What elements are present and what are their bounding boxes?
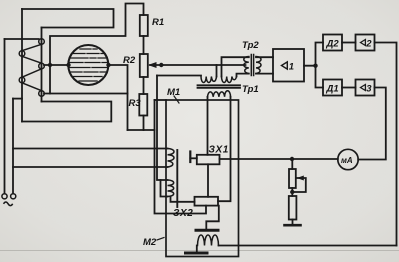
wire box top stub [155,99,167,101]
wire AC to M1 winding bottom [13,166,168,168]
wire Tr1A to wiper [216,65,218,77]
svg-text:1: 1 [289,62,294,73]
detector D2 box [323,35,342,51]
node ball left [66,63,70,67]
potentiometer R2 wiper [150,64,246,66]
wire Tr1 sec to ZX2 right [218,97,231,201]
wire R-chain top feed [50,4,144,94]
wire A2 out down [375,43,397,246]
inductor L1 loops [22,44,42,90]
wire Tr1B to Tr2 bottom [237,74,249,77]
wire R1-R2 [143,36,145,54]
svg-text:М1: М1 [167,87,180,98]
resistor R1 [140,15,148,36]
wire terminal2 to rail [13,98,22,100]
wire coil tap to ball [44,64,69,66]
svg-text:3: 3 [366,84,372,95]
label M1 pointer [174,96,179,103]
rheostat R4 [291,159,293,169]
wire AC lead upper [5,38,39,40]
ZX1 left terminal bar [189,152,191,163]
wire D1 to A3 [342,87,356,89]
wire ball right down [108,65,127,130]
transformer Tr1 winding B [222,77,237,83]
wire M2 winding to ground [196,246,198,252]
wire coil bottom tap [44,93,128,95]
AC source tilde [4,202,13,206]
magnet core M1 [176,150,178,207]
node wiper junction [159,63,163,67]
detector D1 box [323,80,342,96]
winding M2 [198,235,219,246]
resistor R3 [139,94,147,116]
scan artifact line [0,250,399,252]
svg-text:R3: R3 [129,98,142,109]
meter mA [338,149,358,169]
wire ZX2 to core [206,206,219,229]
amplifier A2 box [356,35,375,51]
wire AC to M1 winding top [13,148,168,150]
ground bar [186,252,208,255]
node shunt junction [290,157,294,161]
wire R3 bottom [143,116,145,131]
wire M2 winding chain [157,76,168,181]
transformer Tr2 core [251,55,253,76]
node tap junction [48,63,52,67]
resistor R5 [291,188,293,196]
wire ZX1 out to meter [220,158,338,160]
svg-text:Тр2: Тр2 [242,40,259,51]
amplifier U1 box [273,49,304,82]
svg-text:Д2: Д2 [326,39,340,50]
magnet box M1/M2 [166,100,239,257]
label M2 pointer [157,238,164,241]
svg-text:Д1: Д1 [326,84,339,95]
transformer Tr1 core [198,85,241,88]
winding M1 upper [168,149,175,168]
Hall probe ZX2 [195,197,219,206]
node ball right [106,63,110,67]
svg-text:Тр1: Тр1 [242,84,259,95]
wire ZX2 bottom return [155,100,207,214]
resistor R2 [140,54,148,77]
transformer Tr1 secondary [208,91,231,97]
chassis bar [285,224,301,227]
wire Tr1 sec to ZX1 [207,97,209,155]
transformer Tr2 secondary [256,57,261,74]
ball hatching [69,49,107,81]
wire ZX2 left lead [171,197,195,202]
amplifier A3 box [356,80,375,96]
wire A3 to meter [358,88,386,160]
wire Tr1 feed left [157,75,201,77]
wire ZX1 to ZX2 [207,164,209,197]
wire R2-R3 [143,77,145,94]
wire M2 winding to A2 return [219,245,397,247]
magnet core M2 bar [196,229,218,232]
winding M1 lower [168,180,174,197]
transformer Tr2 primary [244,57,249,74]
wire coil right rail [41,28,43,102]
wire Tr1B to Tr2 top [222,57,249,76]
wire bracket M2 winding [161,180,168,197]
svg-text:R1: R1 [152,17,164,28]
svg-text:R2: R2 [123,55,136,66]
svg-text:М2: М2 [143,237,157,248]
wire Tr2 sec to U1 [256,57,273,73]
svg-text:ЗХ2: ЗХ2 [173,208,193,219]
svg-text:ЗХ1: ЗХ1 [209,145,229,156]
terminal 1 [2,194,7,199]
transformer Tr1 winding A [201,77,217,83]
svg-text:2: 2 [365,39,372,50]
wire lower bus [128,129,155,131]
svg-text:мА: мА [341,156,353,165]
wire terminal2 riser [12,99,14,194]
wire D2 to A2 [342,42,356,44]
wire top outer loop [22,9,114,28]
wire bottom hook [22,102,111,122]
wire U1 out split [304,43,323,88]
ball electrode [68,45,108,85]
wire terminal1 riser [4,39,6,194]
Hall probe ZX1 [197,155,220,165]
terminal 2 [11,194,16,199]
wire coil left rail [21,9,23,122]
node U1 out [313,63,317,67]
